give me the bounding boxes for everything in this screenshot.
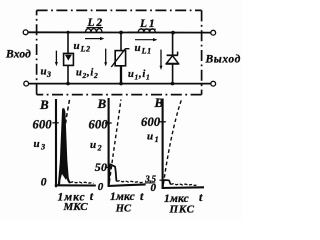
svg-text:Выход: Выход [205,54,241,66]
svg-text:600: 600 [33,118,53,132]
svg-text:В: В [39,97,49,112]
svg-text:L1: L1 [139,18,156,30]
svg-text:0: 0 [41,177,47,189]
svg-text:В: В [97,96,107,111]
svg-text:L2: L2 [87,17,104,29]
svg-text:50: 50 [95,160,107,174]
svg-text:1мкс: 1мкс [110,191,135,203]
svg-text:0: 0 [151,182,157,194]
svg-text:600: 600 [89,118,109,132]
svg-text:0: 0 [98,181,104,193]
svg-text:ПКС: ПКС [169,203,195,215]
svg-text:600: 600 [141,115,161,129]
svg-text:МКС: МКС [63,201,89,213]
svg-text:Вход: Вход [5,49,31,61]
svg-text:В: В [154,95,164,110]
svg-text:НС: НС [115,203,132,214]
